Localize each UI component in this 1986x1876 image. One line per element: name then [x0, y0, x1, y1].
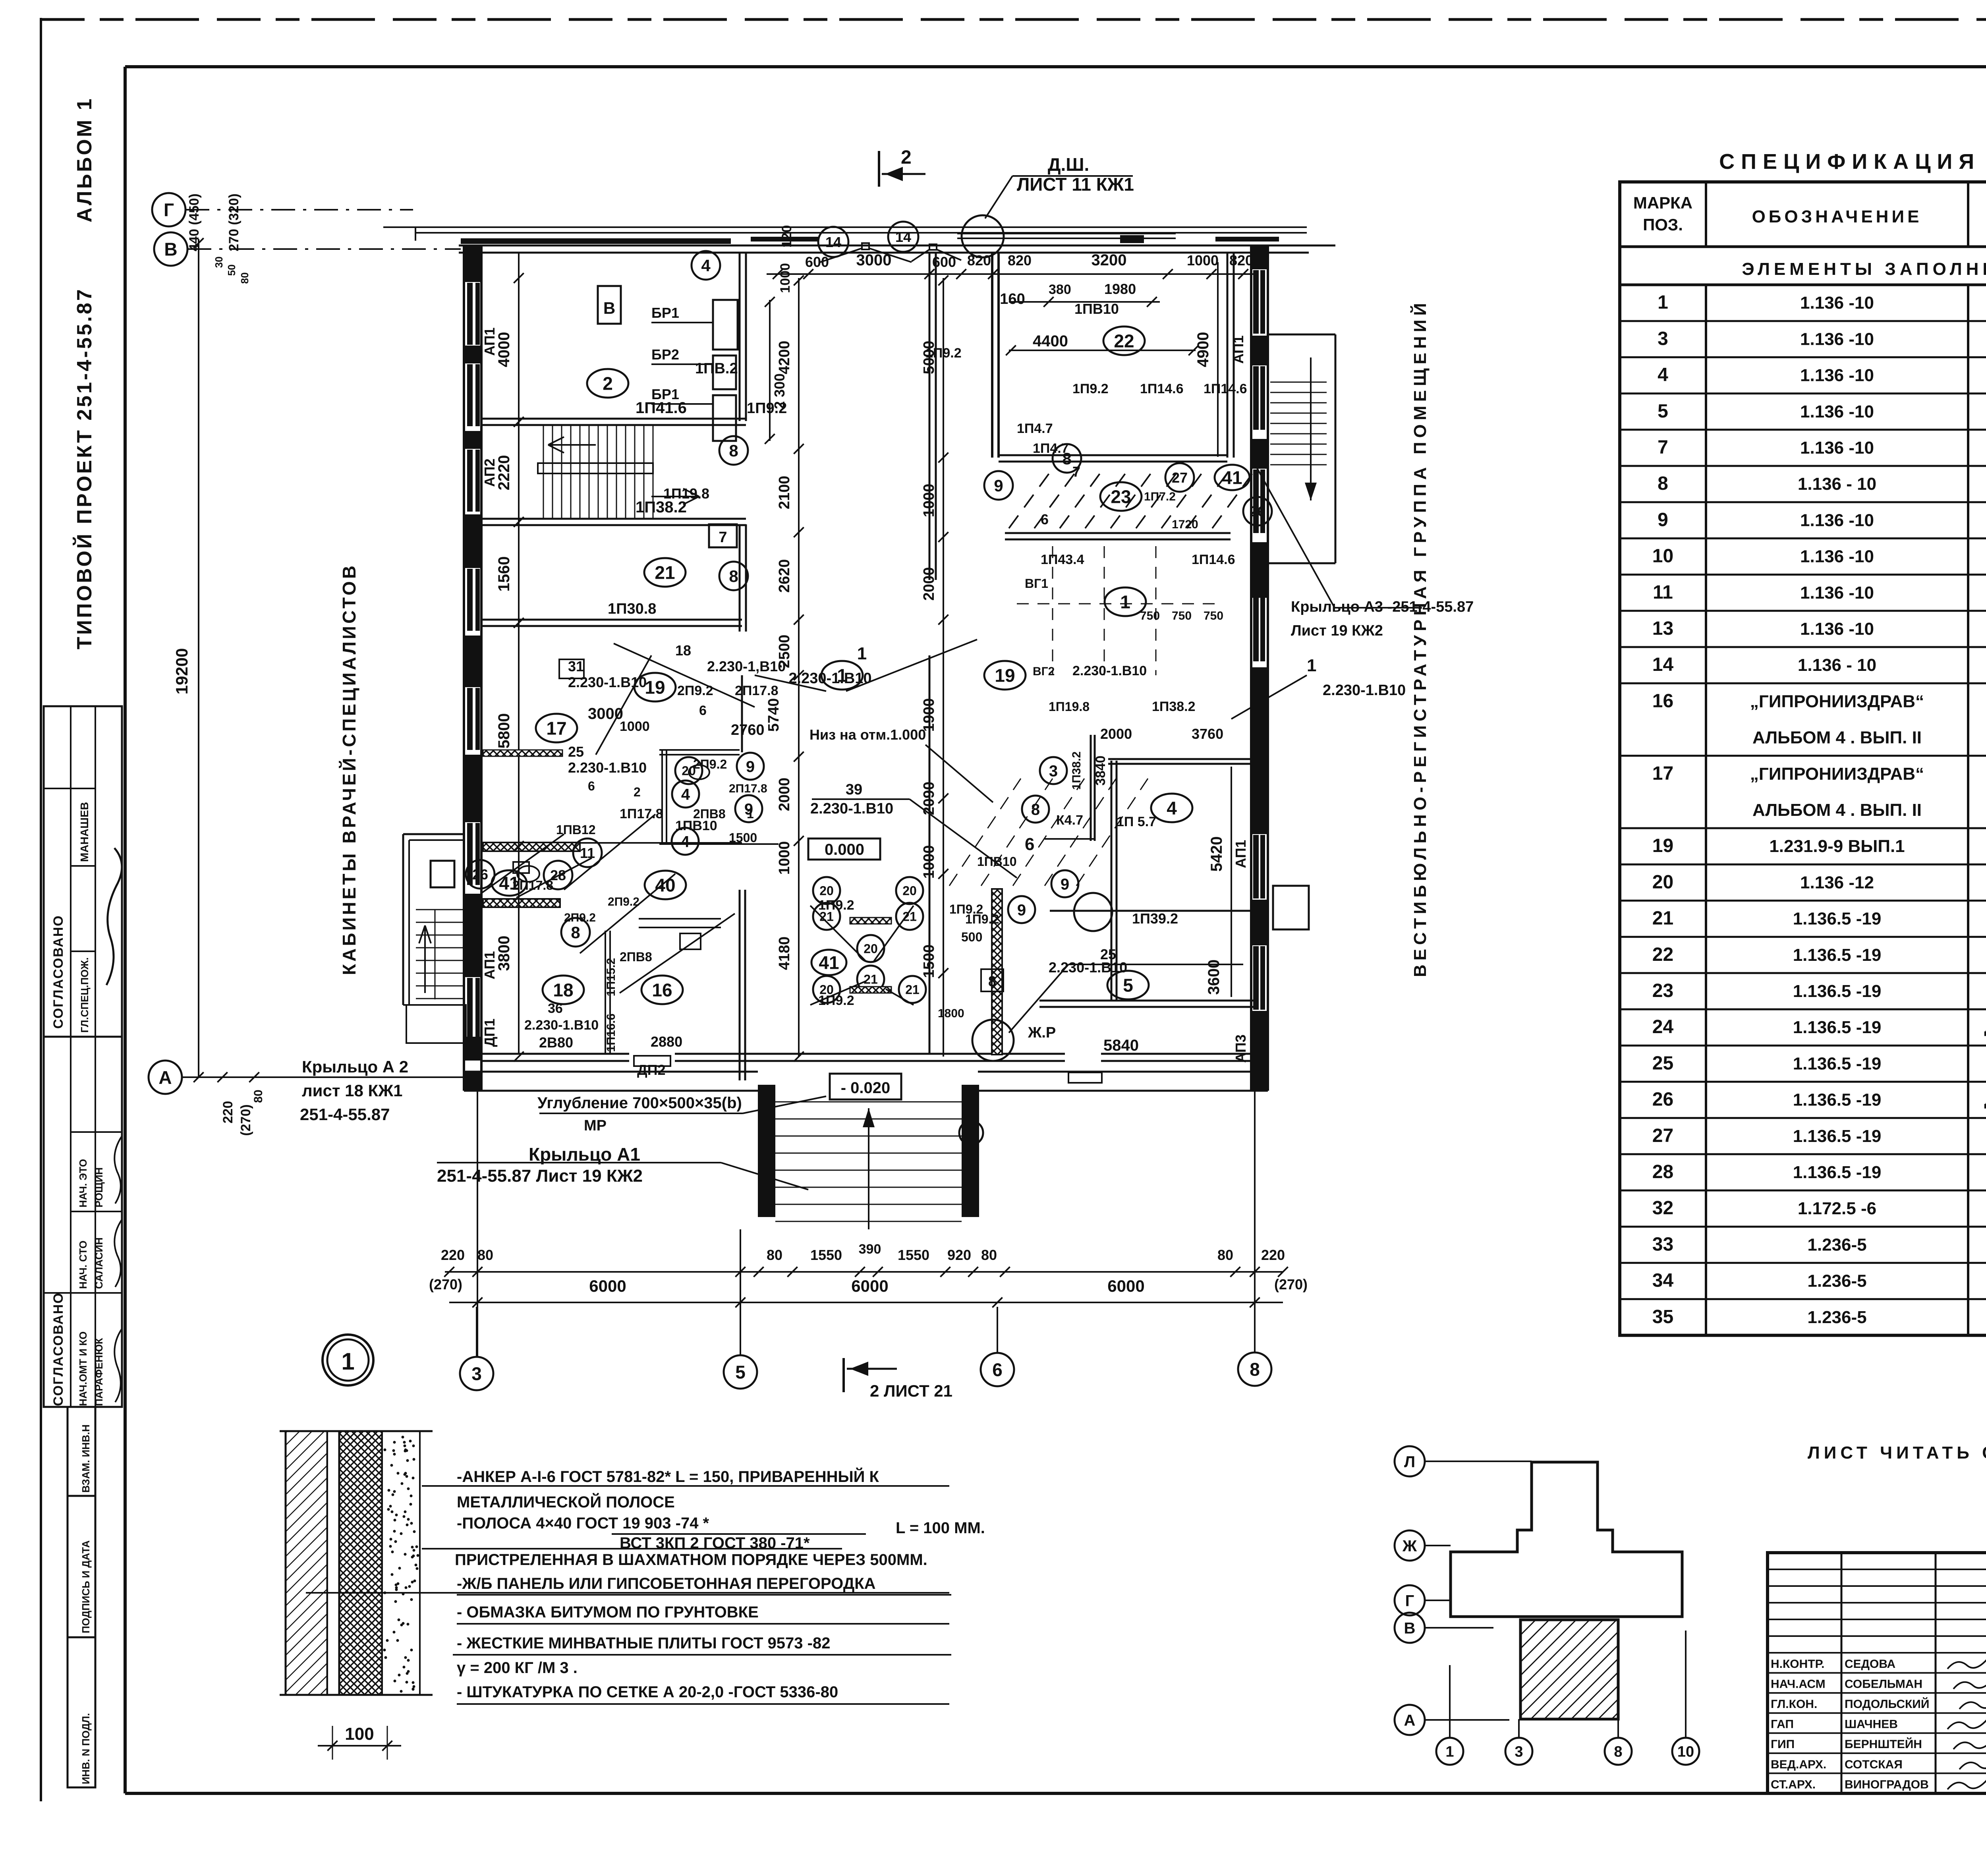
- svg-text:80: 80: [981, 1247, 997, 1263]
- svg-text:1П39.2: 1П39.2: [1132, 910, 1178, 927]
- svg-text:1П 5.7: 1П 5.7: [1117, 814, 1156, 829]
- svg-text:820: 820: [1008, 252, 1032, 269]
- svg-text:9: 9: [994, 476, 1003, 495]
- svg-text:Л: Л: [1404, 1453, 1415, 1470]
- svg-text:2.230-1,В10: 2.230-1,В10: [707, 658, 786, 674]
- svg-text:1.136 -10: 1.136 -10: [1800, 510, 1874, 530]
- svg-text:8: 8: [1614, 1744, 1622, 1760]
- svg-text:5420: 5420: [1208, 837, 1225, 872]
- svg-text:1П38.2: 1П38.2: [1070, 752, 1083, 790]
- svg-text:40: 40: [655, 875, 675, 896]
- svg-text:2 300: 2 300: [771, 373, 788, 409]
- svg-text:2000: 2000: [921, 567, 937, 601]
- svg-text:БР1: БР1: [651, 386, 679, 402]
- svg-text:АЛЬБОМ 4 . ВЫП. II: АЛЬБОМ 4 . ВЫП. II: [1752, 728, 1922, 748]
- svg-text:17: 17: [546, 718, 566, 739]
- svg-text:41: 41: [1222, 468, 1242, 488]
- svg-text:5800: 5800: [495, 713, 513, 749]
- svg-text:1ПВ10: 1ПВ10: [1074, 301, 1119, 317]
- svg-text:АЛЬБОМ 1: АЛЬБОМ 1: [73, 97, 96, 222]
- svg-text:1000: 1000: [921, 845, 937, 879]
- svg-text:750: 750: [1204, 609, 1223, 622]
- svg-text:1550: 1550: [810, 1247, 842, 1263]
- svg-text:18: 18: [675, 642, 691, 659]
- svg-text:1П9.2: 1П9.2: [925, 346, 962, 361]
- svg-text:1.231.9-9 ВЫП.1: 1.231.9-9 ВЫП.1: [1769, 837, 1905, 856]
- svg-text:2.230-1.В10: 2.230-1.В10: [1323, 682, 1406, 699]
- svg-text:АП3: АП3: [1233, 1034, 1249, 1063]
- svg-text:НАЧ. ЭТО: НАЧ. ЭТО: [77, 1159, 89, 1208]
- svg-text:3: 3: [1515, 1744, 1523, 1760]
- svg-text:ВГ2: ВГ2: [1033, 665, 1055, 678]
- svg-text:1980: 1980: [1104, 281, 1136, 297]
- svg-text:МАРКА: МАРКА: [1633, 193, 1692, 212]
- svg-text:6000: 6000: [1107, 1277, 1144, 1295]
- svg-text:6: 6: [588, 779, 595, 793]
- svg-text:11: 11: [1653, 582, 1673, 603]
- svg-text:3: 3: [471, 1364, 482, 1384]
- svg-text:4180: 4180: [776, 937, 793, 970]
- svg-text:3: 3: [1049, 762, 1058, 780]
- svg-text:80: 80: [252, 1090, 265, 1103]
- svg-text:- ШТУКАТУРКА ПО СЕТКЕ А 20-2,0: - ШТУКАТУРКА ПО СЕТКЕ А 20-2,0 -ГОСТ 533…: [457, 1683, 838, 1701]
- svg-text:1П38.2: 1П38.2: [1152, 699, 1196, 714]
- svg-text:1: 1: [1445, 1744, 1454, 1760]
- svg-text:АП1: АП1: [481, 951, 498, 979]
- svg-text:13: 13: [1652, 618, 1673, 639]
- svg-text:1П43.4: 1П43.4: [1041, 552, 1084, 567]
- svg-text:Г: Г: [164, 200, 174, 220]
- svg-text:5: 5: [735, 1362, 746, 1383]
- svg-text:750: 750: [1140, 609, 1160, 622]
- svg-text:11: 11: [580, 845, 595, 861]
- svg-text:1П15.2: 1П15.2: [605, 958, 618, 997]
- svg-text:4400: 4400: [1033, 332, 1068, 350]
- svg-text:- ЖЕСТКИЕ МИНВАТНЫЕ ПЛИТЫ ГОС: - ЖЕСТКИЕ МИНВАТНЫЕ ПЛИТЫ ГОСТ 9573 -82: [457, 1634, 830, 1652]
- svg-text:γ = 200 КГ /М 3 .: γ = 200 КГ /М 3 .: [457, 1659, 578, 1677]
- svg-text:2.230-1.В10: 2.230-1.В10: [568, 759, 647, 776]
- svg-text:1.136.5 -19: 1.136.5 -19: [1793, 1126, 1882, 1146]
- svg-text:1.136 -10: 1.136 -10: [1800, 438, 1874, 458]
- svg-text:820: 820: [1229, 252, 1253, 269]
- svg-text:1.136 -10: 1.136 -10: [1800, 329, 1874, 349]
- svg-text:1: 1: [1658, 292, 1668, 313]
- svg-text:16: 16: [1652, 690, 1673, 711]
- svg-text:8: 8: [729, 567, 738, 585]
- svg-text:220: 220: [441, 1247, 465, 1263]
- svg-text:1: 1: [857, 644, 867, 663]
- svg-text:ГИП: ГИП: [1771, 1738, 1795, 1751]
- svg-text:2760: 2760: [731, 722, 765, 738]
- svg-text:2: 2: [603, 373, 613, 394]
- svg-text:2.230-1.В10: 2.230-1.В10: [524, 1018, 599, 1033]
- svg-text:1.136 -10: 1.136 -10: [1800, 402, 1874, 421]
- svg-text:25: 25: [1652, 1053, 1673, 1074]
- svg-text:8: 8: [1658, 473, 1668, 494]
- svg-text:1П14.6: 1П14.6: [1140, 381, 1184, 396]
- svg-text:6: 6: [1041, 511, 1049, 527]
- svg-text:1П9.2: 1П9.2: [1072, 381, 1109, 396]
- svg-text:32: 32: [1652, 1198, 1673, 1219]
- svg-text:Низ на отм.1.000: Низ на отм.1.000: [809, 726, 926, 743]
- svg-text:920: 920: [947, 1247, 971, 1263]
- svg-text:3000: 3000: [856, 251, 892, 269]
- svg-text:10: 10: [1652, 546, 1673, 567]
- svg-text:4200: 4200: [776, 341, 793, 375]
- svg-text:39: 39: [846, 781, 862, 798]
- svg-text:2ПВ8: 2ПВ8: [620, 950, 652, 964]
- svg-text:2ПВ8: 2ПВ8: [693, 807, 726, 821]
- svg-text:5: 5: [1658, 401, 1668, 422]
- svg-text:(270): (270): [429, 1276, 462, 1293]
- svg-text:80: 80: [477, 1247, 493, 1263]
- svg-text:ВИНОГРАДОВ: ВИНОГРАДОВ: [1845, 1778, 1929, 1791]
- svg-text:8: 8: [1250, 1359, 1260, 1380]
- svg-text:1П19.8: 1П19.8: [1049, 699, 1090, 714]
- svg-text:ПРИСТРЕЛЕННАЯ В ШАХМАТНОМ ПОРЯ: ПРИСТРЕЛЕННАЯ В ШАХМАТНОМ ПОРЯДКЕ ЧЕРЕЗ …: [455, 1551, 927, 1569]
- svg-text:160: 160: [1000, 291, 1025, 307]
- svg-text:20: 20: [902, 884, 917, 898]
- svg-text:8: 8: [988, 973, 996, 989]
- svg-text:СЕДОВА: СЕДОВА: [1845, 1658, 1895, 1671]
- svg-text:1П16.6: 1П16.6: [605, 1014, 618, 1052]
- svg-text:1П17.8: 1П17.8: [620, 806, 663, 821]
- svg-text:120: 120: [779, 225, 794, 248]
- svg-text:1П19.8: 1П19.8: [663, 485, 709, 502]
- svg-text:ОБОЗНАЧЕНИЕ: ОБОЗНАЧЕНИЕ: [1752, 207, 1922, 226]
- svg-text:АП2: АП2: [481, 458, 498, 487]
- svg-text:Г: Г: [1405, 1592, 1414, 1609]
- svg-text:820: 820: [967, 252, 991, 269]
- svg-text:1.136 -10: 1.136 -10: [1800, 293, 1874, 313]
- svg-text:РОЩИН: РОЩИН: [93, 1167, 105, 1208]
- svg-text:(270): (270): [1274, 1276, 1308, 1293]
- svg-text:Д.Ш.: Д.Ш.: [1048, 154, 1090, 175]
- svg-text:В: В: [164, 239, 177, 260]
- svg-text:20: 20: [819, 884, 834, 898]
- svg-text:750: 750: [1172, 609, 1192, 622]
- svg-text:ДВЕРНОЙ БЛОК ДН21-13ЩР1ПН: ДВЕРНОЙ БЛОК ДН21-13ЩР1ПН: [1984, 1020, 1986, 1036]
- svg-text:СПЕЦИФИКАЦИЯ ИЗДЕЛИЙ: СПЕЦИФИКАЦИЯ ИЗДЕЛИЙ: [1719, 149, 1986, 174]
- svg-text:ДП1: ДП1: [481, 1018, 498, 1047]
- svg-text:2: 2: [967, 1125, 975, 1141]
- svg-text:1.136 -10: 1.136 -10: [1800, 366, 1874, 385]
- svg-text:24: 24: [1652, 1016, 1674, 1037]
- svg-text:1.136 - 10: 1.136 - 10: [1798, 474, 1876, 494]
- svg-text:21: 21: [1652, 908, 1673, 929]
- svg-text:В: В: [1404, 1619, 1416, 1637]
- svg-text:26: 26: [472, 866, 488, 883]
- svg-text:41: 41: [499, 873, 519, 894]
- svg-text:270 (320): 270 (320): [226, 193, 241, 251]
- svg-text:4: 4: [681, 786, 690, 803]
- svg-text:3840: 3840: [1093, 755, 1108, 786]
- svg-text:6000: 6000: [851, 1277, 888, 1295]
- svg-text:Углубление 700×500×35(b): Углубление 700×500×35(b): [537, 1094, 742, 1112]
- svg-text:1.136.5 -19: 1.136.5 -19: [1793, 1018, 1882, 1037]
- svg-text:14: 14: [825, 234, 841, 250]
- svg-text:1П7.2: 1П7.2: [1144, 490, 1176, 503]
- svg-text:25: 25: [568, 744, 584, 760]
- svg-text:ТИПОВОЙ ПРОЕКТ 251-4-55.87: ТИПОВОЙ ПРОЕКТ 251-4-55.87: [73, 287, 96, 649]
- svg-text:-Ж/Б ПАНЕЛЬ ИЛИ ГИПСОБЕТОННАЯ: -Ж/Б ПАНЕЛЬ ИЛИ ГИПСОБЕТОННАЯ ПЕРЕГОРОДК…: [457, 1575, 876, 1592]
- svg-text:1800: 1800: [938, 1007, 964, 1020]
- svg-text:18: 18: [553, 980, 573, 1001]
- svg-text:14: 14: [895, 229, 911, 245]
- svg-text:80: 80: [239, 272, 251, 284]
- svg-text:1П30.8: 1П30.8: [608, 601, 656, 617]
- svg-text:220: 220: [220, 1101, 236, 1124]
- svg-text:-АНКЕР А-I-6 ГОСТ 5781-82* L =: -АНКЕР А-I-6 ГОСТ 5781-82* L = 150, ПРИВ…: [457, 1467, 879, 1486]
- svg-text:16: 16: [652, 980, 672, 1001]
- svg-text:„ГИПРОНИИЗДРАВ“: „ГИПРОНИИЗДРАВ“: [1750, 692, 1924, 711]
- svg-text:27: 27: [1652, 1125, 1673, 1146]
- svg-text:5840: 5840: [1103, 1037, 1139, 1054]
- svg-text:26: 26: [1250, 503, 1265, 520]
- svg-text:0.000: 0.000: [825, 841, 864, 858]
- svg-text:1560: 1560: [495, 556, 513, 592]
- svg-text:2880: 2880: [651, 1034, 682, 1050]
- svg-text:380: 380: [1049, 282, 1071, 297]
- svg-text:41: 41: [819, 952, 839, 973]
- svg-text:600: 600: [932, 254, 956, 270]
- svg-text:БР2: БР2: [651, 346, 679, 363]
- svg-text:- 0.020: - 0.020: [841, 1079, 891, 1097]
- svg-text:9: 9: [1017, 901, 1026, 919]
- svg-text:ШАЧНЕВ: ШАЧНЕВ: [1845, 1718, 1898, 1731]
- svg-text:2220: 2220: [495, 455, 513, 491]
- svg-text:2: 2: [901, 147, 912, 168]
- svg-text:МАНАШЕВ: МАНАШЕВ: [78, 802, 91, 862]
- svg-text:НАЧ.ОМТ И КО: НАЧ.ОМТ И КО: [77, 1331, 89, 1406]
- svg-text:1.136.5 -19: 1.136.5 -19: [1793, 981, 1882, 1001]
- svg-text:4900: 4900: [1194, 332, 1212, 367]
- svg-text:АП1: АП1: [1233, 840, 1249, 868]
- svg-text:2.230-1.В10: 2.230-1.В10: [788, 670, 871, 687]
- svg-text:ГЛ.СПЕЦ.ПОЖ.: ГЛ.СПЕЦ.ПОЖ.: [79, 957, 91, 1033]
- svg-text:2П17.8: 2П17.8: [735, 683, 779, 698]
- svg-text:ВСТ 3КП 2 ГОСТ 380 -71*: ВСТ 3КП 2 ГОСТ 380 -71*: [620, 1534, 810, 1552]
- svg-text:1.136.5 -19: 1.136.5 -19: [1793, 1163, 1882, 1182]
- svg-text:10: 10: [1677, 1744, 1694, 1760]
- svg-text:390: 390: [859, 1242, 881, 1257]
- svg-text:4000: 4000: [495, 332, 513, 367]
- svg-text:14: 14: [1652, 654, 1674, 675]
- svg-text:СОБЕЛЬМАН: СОБЕЛЬМАН: [1845, 1678, 1922, 1691]
- svg-text:1П4.7: 1П4.7: [1017, 421, 1053, 436]
- svg-text:2П9.2: 2П9.2: [608, 895, 639, 908]
- svg-text:2П17.8: 2П17.8: [729, 782, 767, 795]
- svg-text:20: 20: [819, 983, 834, 997]
- svg-text:6: 6: [1025, 835, 1034, 854]
- svg-text:80: 80: [1217, 1247, 1233, 1263]
- svg-text:19: 19: [1652, 835, 1673, 856]
- svg-text:ВГ1: ВГ1: [1025, 576, 1048, 591]
- svg-text:8: 8: [571, 923, 580, 942]
- svg-text:- ОБМАЗКА БИТУМОМ ПО ГРУНТОВКЕ: - ОБМАЗКА БИТУМОМ ПО ГРУНТОВКЕ: [457, 1604, 759, 1621]
- svg-text:1550: 1550: [898, 1247, 929, 1263]
- svg-text:8: 8: [1062, 449, 1071, 468]
- svg-text:8: 8: [729, 441, 738, 460]
- svg-text:ПАРАФЕНЮК: ПАРАФЕНЮК: [93, 1338, 105, 1406]
- svg-text:Крыльцо А 2: Крыльцо А 2: [302, 1057, 408, 1076]
- svg-text:1000: 1000: [776, 841, 793, 875]
- svg-text:К4.7: К4.7: [1056, 813, 1083, 828]
- svg-text:6: 6: [992, 1360, 1003, 1380]
- svg-text:2.230-1.В10: 2.230-1.В10: [810, 800, 893, 817]
- svg-text:19: 19: [995, 665, 1015, 686]
- svg-text:4: 4: [1658, 365, 1668, 386]
- svg-text:1500: 1500: [729, 831, 757, 845]
- svg-text:251-4-55.87: 251-4-55.87: [300, 1105, 390, 1124]
- svg-text:23: 23: [1652, 980, 1673, 1001]
- svg-text:1000: 1000: [1187, 252, 1219, 269]
- svg-text:1000: 1000: [620, 719, 650, 734]
- svg-text:2000: 2000: [1100, 726, 1132, 742]
- svg-text:ПОДОЛЬСКИЙ: ПОДОЛЬСКИЙ: [1845, 1697, 1929, 1711]
- svg-text:ПОДПИСЬ И ДАТА: ПОДПИСЬ И ДАТА: [80, 1540, 92, 1633]
- svg-text:1.136.5 -19: 1.136.5 -19: [1793, 1054, 1882, 1073]
- svg-text:27: 27: [1172, 469, 1188, 486]
- svg-text:Н.КОНТР.: Н.КОНТР.: [1771, 1658, 1824, 1671]
- svg-text:НАЧ. СТО: НАЧ. СТО: [77, 1240, 89, 1289]
- svg-text:ВЕСТИБЮЛЬНО-РЕГИСТРАТУРНАЯ ГР: ВЕСТИБЮЛЬНО-РЕГИСТРАТУРНАЯ ГРУППА ПОМЕЩЕ…: [1410, 299, 1430, 977]
- svg-text:20: 20: [864, 942, 878, 956]
- svg-text:4: 4: [1167, 798, 1177, 819]
- svg-text:ИНВ. N ПОДЛ.: ИНВ. N ПОДЛ.: [80, 1713, 92, 1784]
- svg-text:26: 26: [1652, 1089, 1673, 1110]
- svg-text:1: 1: [1307, 656, 1316, 675]
- svg-text:31: 31: [568, 658, 584, 674]
- svg-text:80: 80: [767, 1247, 782, 1263]
- svg-text:28: 28: [1652, 1161, 1673, 1182]
- svg-text:17: 17: [1652, 763, 1673, 784]
- svg-text:-ПОЛОСА 4×40 ГОСТ 19 903 -7: -ПОЛОСА 4×40 ГОСТ 19 903 -74 *: [457, 1515, 709, 1532]
- svg-text:1.136 - 10: 1.136 - 10: [1798, 655, 1876, 675]
- svg-text:220: 220: [1261, 1247, 1285, 1263]
- svg-text:1ПВ.2: 1ПВ.2: [695, 360, 738, 377]
- svg-text:А: А: [1404, 1712, 1416, 1729]
- svg-text:„ГИПРОНИИЗДРАВ“: „ГИПРОНИИЗДРАВ“: [1750, 764, 1924, 784]
- svg-text:1: 1: [341, 1348, 354, 1375]
- svg-text:Ж: Ж: [1402, 1537, 1417, 1555]
- svg-text:лист 18 КЖ1: лист 18 КЖ1: [302, 1081, 402, 1100]
- svg-text:500: 500: [961, 930, 982, 944]
- svg-text:1.136.5 -19: 1.136.5 -19: [1793, 945, 1882, 965]
- svg-text:(270): (270): [238, 1104, 253, 1136]
- svg-text:2.230-1.В10: 2.230-1.В10: [1072, 663, 1147, 678]
- svg-text:5740: 5740: [765, 698, 782, 732]
- svg-text:2: 2: [634, 785, 641, 799]
- svg-text:251-4-55.87 Лист 19 КЖ2: 251-4-55.87 Лист 19 КЖ2: [437, 1166, 643, 1186]
- svg-text:23: 23: [1111, 487, 1131, 507]
- svg-text:9: 9: [1061, 875, 1069, 893]
- svg-text:БР1: БР1: [651, 305, 679, 321]
- svg-text:3: 3: [1658, 328, 1668, 349]
- svg-text:600: 600: [805, 254, 829, 270]
- svg-text:3760: 3760: [1192, 726, 1223, 742]
- svg-text:2620: 2620: [776, 559, 793, 593]
- svg-text:1ПВ10: 1ПВ10: [977, 854, 1017, 869]
- svg-text:БЕРНШТЕЙН: БЕРНШТЕЙН: [1845, 1737, 1922, 1751]
- svg-text:9: 9: [744, 800, 753, 818]
- svg-text:АП1: АП1: [481, 327, 498, 355]
- svg-text:7: 7: [719, 529, 727, 546]
- svg-text:Лист 19 КЖ2: Лист 19 КЖ2: [1291, 622, 1383, 639]
- svg-text:50: 50: [226, 265, 238, 276]
- svg-text:НАЧ.АСМ: НАЧ.АСМ: [1771, 1678, 1826, 1691]
- svg-text:ВЕД.АРХ.: ВЕД.АРХ.: [1771, 1758, 1826, 1771]
- svg-text:МР: МР: [584, 1117, 607, 1134]
- svg-text:АЛЬБОМ 4 . ВЫП. II: АЛЬБОМ 4 . ВЫП. II: [1752, 800, 1922, 820]
- svg-text:8: 8: [1031, 801, 1040, 818]
- svg-text:21: 21: [864, 972, 878, 987]
- svg-text:1.136 -10: 1.136 -10: [1800, 583, 1874, 603]
- svg-text:19: 19: [645, 677, 665, 698]
- svg-text:ВЗАМ. ИНВ.Н: ВЗАМ. ИНВ.Н: [80, 1424, 92, 1493]
- svg-text:САЛАСИН: САЛАСИН: [93, 1237, 105, 1289]
- svg-text:ГАП: ГАП: [1771, 1718, 1794, 1731]
- svg-text:ЛИСТ 11 КЖ1: ЛИСТ 11 КЖ1: [1017, 174, 1134, 195]
- svg-text:1.172.5 -6: 1.172.5 -6: [1798, 1199, 1876, 1218]
- svg-text:ЛИСТ ЧИТАТЬ СОВМЕСТНО С ЛИСТ: ЛИСТ ЧИТАТЬ СОВМЕСТНО С ЛИСТОМ 9: [1808, 1443, 1986, 1463]
- svg-text:МЕТАЛЛИЧЕСКОЙ ПОЛОСЕ: МЕТАЛЛИЧЕСКОЙ ПОЛОСЕ: [457, 1493, 675, 1511]
- svg-text:9: 9: [1658, 509, 1668, 530]
- svg-text:КАБИНЕТЫ ВРАЧЕЙ-СПЕЦИАЛИСТОВ: КАБИНЕТЫ ВРАЧЕЙ-СПЕЦИАЛИСТОВ: [339, 563, 359, 975]
- svg-text:А: А: [158, 1067, 172, 1088]
- svg-text:19200: 19200: [172, 648, 191, 695]
- svg-text:АП1: АП1: [1230, 335, 1246, 363]
- svg-text:21: 21: [905, 983, 920, 997]
- svg-text:35: 35: [1652, 1306, 1673, 1327]
- svg-text:1.136 -10: 1.136 -10: [1800, 547, 1874, 566]
- svg-text:22: 22: [1652, 944, 1673, 965]
- svg-text:2 ЛИСТ 21: 2 ЛИСТ 21: [870, 1381, 952, 1400]
- svg-text:6000: 6000: [589, 1277, 626, 1295]
- svg-text:1П14.6: 1П14.6: [1204, 381, 1247, 396]
- svg-text:1720: 1720: [1172, 518, 1198, 531]
- svg-text:100: 100: [345, 1724, 374, 1744]
- svg-text:3800: 3800: [495, 936, 513, 971]
- svg-text:ДВЕРНОЙ БЛОК ДН21-10ЩР1ПН: ДВЕРНОЙ БЛОК ДН21-10ЩР1ПН: [1984, 1092, 1986, 1109]
- svg-text:1000: 1000: [778, 263, 793, 293]
- svg-text:34: 34: [1652, 1270, 1674, 1291]
- svg-text:1П9.2: 1П9.2: [965, 912, 999, 926]
- svg-text:22: 22: [1114, 331, 1134, 352]
- svg-text:1000: 1000: [921, 484, 937, 518]
- svg-text:ГЛ.КОН.: ГЛ.КОН.: [1771, 1698, 1817, 1711]
- svg-text:1.136.5 -19: 1.136.5 -19: [1793, 1090, 1882, 1110]
- svg-text:СТ.АРХ.: СТ.АРХ.: [1771, 1778, 1816, 1791]
- svg-text:2П9.2: 2П9.2: [693, 757, 727, 771]
- svg-text:СОТСКАЯ: СОТСКАЯ: [1845, 1758, 1903, 1771]
- svg-text:20: 20: [1652, 871, 1673, 893]
- svg-text:3200: 3200: [1092, 251, 1127, 269]
- svg-text:21: 21: [655, 562, 675, 583]
- svg-text:6: 6: [699, 703, 707, 718]
- svg-text:4: 4: [681, 833, 690, 850]
- svg-text:1.136.5 -19: 1.136.5 -19: [1793, 909, 1882, 929]
- svg-text:L = 100 ММ.: L = 100 ММ.: [896, 1519, 985, 1537]
- svg-text:2100: 2100: [776, 476, 793, 510]
- svg-text:Ж.Р: Ж.Р: [1028, 1024, 1056, 1041]
- svg-text:1П14.6: 1П14.6: [1192, 552, 1235, 567]
- svg-text:2000: 2000: [776, 778, 793, 811]
- svg-text:В: В: [603, 299, 615, 317]
- svg-text:30: 30: [213, 257, 225, 268]
- svg-text:1.236-5: 1.236-5: [1807, 1308, 1866, 1327]
- svg-text:9: 9: [746, 758, 755, 775]
